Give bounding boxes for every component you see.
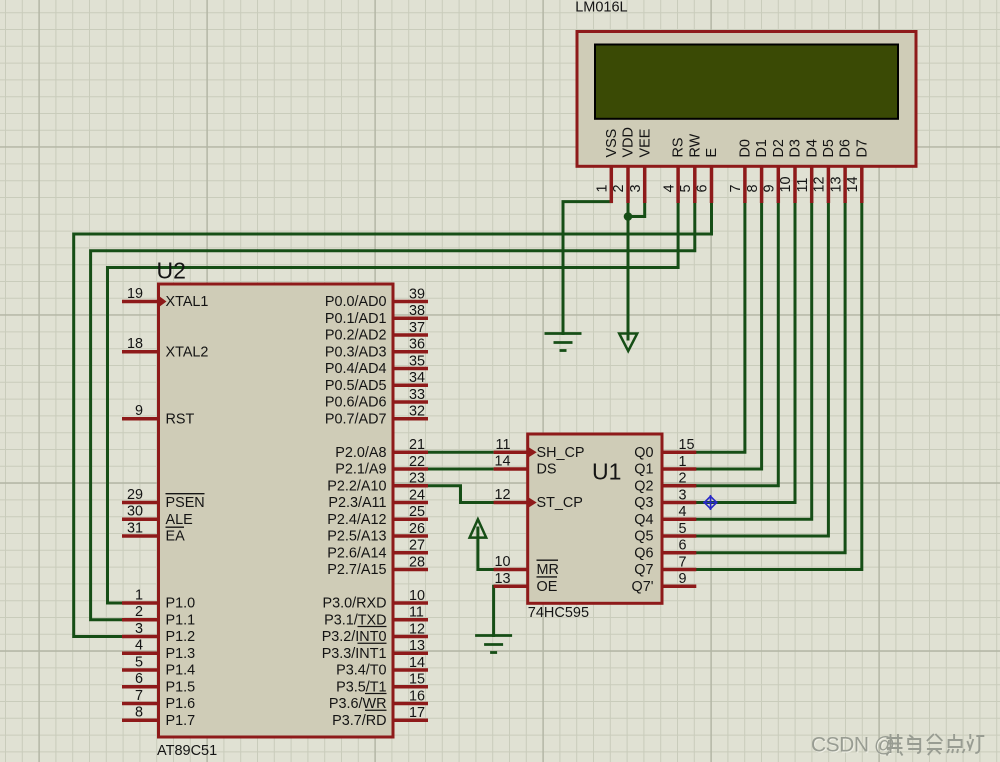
svg-text:12: 12 — [409, 621, 425, 637]
svg-text:P2.4/A12: P2.4/A12 — [327, 512, 386, 528]
U2 pin 5 (P1.4) — [122, 654, 195, 678]
svg-text:ST_CP: ST_CP — [537, 495, 583, 511]
svg-text:12: 12 — [812, 176, 828, 192]
label LM016L — [575, 0, 627, 16]
LCD pin 2 (VDD) stub — [611, 127, 636, 203]
ground terminal arrow (below VDD/VEE) — [619, 334, 637, 352]
LCD pin 7 (D0) stub — [728, 139, 753, 203]
wire OE to ground — [492, 586, 495, 635]
svg-text:P1.6: P1.6 — [166, 696, 196, 712]
shift register U1 74HC595 body — [528, 434, 662, 603]
svg-text:RW: RW — [687, 133, 703, 157]
U1 pin 11 (SH_CP) — [494, 437, 585, 461]
U2 pin 17 (P3.7/RD) — [332, 705, 428, 729]
svg-text:DS: DS — [537, 462, 557, 478]
wire VDD (LCD pin 2) down to terminal — [627, 203, 630, 339]
svg-text:74HC595: 74HC595 — [528, 605, 589, 621]
svg-text:D3: D3 — [788, 139, 804, 157]
svg-text:3: 3 — [135, 621, 143, 637]
U2 pin 37 (P0.2/AD2) — [325, 320, 428, 344]
LCD pin 13 (D6) stub — [828, 139, 853, 203]
svg-text:14: 14 — [409, 655, 425, 671]
U2 pin 39 (P0.0/AD0) — [325, 286, 428, 310]
ground (U1 OE) — [475, 636, 512, 653]
svg-text:P1.5: P1.5 — [166, 679, 196, 695]
svg-text:P0.2/AD2: P0.2/AD2 — [325, 328, 387, 344]
svg-text:VSS: VSS — [604, 129, 620, 158]
U2 pin 8 (P1.7) — [122, 705, 195, 729]
svg-text:RS: RS — [671, 138, 687, 158]
svg-text:6: 6 — [135, 671, 143, 687]
wire VSS (LCD pin 1) to ground — [563, 202, 611, 334]
wire D1 : LCD pin 8 to U1 Q1 — [696, 203, 761, 469]
svg-text:D7: D7 — [854, 139, 870, 157]
U2 pin 24 (P2.3/A11) — [328, 487, 428, 511]
svg-text:27: 27 — [409, 538, 425, 554]
svg-text:14: 14 — [845, 176, 861, 192]
svg-text:ALE: ALE — [166, 512, 193, 528]
svg-text:5: 5 — [678, 184, 694, 192]
svg-text:37: 37 — [409, 320, 425, 336]
wire P2.2/A10 to ST_CP — [428, 486, 494, 503]
svg-text:38: 38 — [409, 303, 425, 319]
svg-text:2: 2 — [135, 604, 143, 620]
LCD pin 3 (VEE) stub — [628, 129, 653, 203]
svg-text:7: 7 — [728, 184, 744, 192]
LCD display LM016L body — [577, 32, 916, 167]
svg-text:6: 6 — [679, 538, 687, 554]
U1 pin 9 (Q7') — [632, 571, 697, 595]
svg-text:6: 6 — [695, 184, 711, 192]
svg-text:P0.4/AD4: P0.4/AD4 — [325, 361, 387, 377]
U1 pin 4 (Q4) — [634, 504, 696, 528]
junction VDD/VEE — [624, 212, 633, 221]
LCD pin 6 (E) stub — [695, 148, 720, 203]
ground (LCD VSS) — [545, 334, 582, 351]
wire MR to +5V power — [478, 528, 494, 570]
LCD pin 8 (D1) stub — [745, 139, 770, 203]
svg-text:D2: D2 — [771, 139, 787, 157]
svg-text:26: 26 — [409, 521, 425, 537]
U2 pin 2 (P1.1) — [122, 604, 195, 628]
svg-text:17: 17 — [409, 705, 425, 721]
svg-text:P1.2: P1.2 — [166, 629, 196, 645]
svg-text:18: 18 — [127, 336, 143, 352]
svg-text:MR: MR — [537, 562, 559, 578]
U2 pin 6 (P1.5) — [122, 671, 195, 695]
svg-text:P1.3: P1.3 — [166, 646, 196, 662]
U2 pin 14 (P3.4/T0) — [336, 655, 428, 679]
U2 pin 1 (P1.0) — [122, 587, 195, 611]
U2 pin 26 (P2.5/A13) — [327, 521, 428, 545]
svg-text:Q4: Q4 — [634, 512, 653, 528]
wire D6 : LCD pin 13 to U1 Q6 — [696, 203, 845, 553]
svg-text:34: 34 — [409, 370, 425, 386]
U2 pin 18 (XTAL2) — [122, 336, 208, 360]
U2 pin 12 (P3.2/INT0) — [322, 621, 428, 645]
U1 pin 1 (Q1) — [634, 454, 696, 478]
wire D5 : LCD pin 12 to U1 Q5 — [696, 203, 828, 536]
svg-text:E: E — [704, 148, 720, 158]
svg-text:10: 10 — [778, 176, 794, 192]
U1 pin 10 (MR) — [494, 554, 559, 578]
svg-text:11: 11 — [496, 437, 511, 453]
wire P2.0/A8 to SH_CP — [428, 451, 494, 454]
svg-text:5: 5 — [135, 654, 143, 670]
U2 pin 33 (P0.6/AD6) — [325, 387, 428, 411]
svg-text:21: 21 — [409, 437, 425, 453]
svg-text:12: 12 — [494, 487, 510, 503]
svg-text:P2.0/A8: P2.0/A8 — [335, 445, 386, 461]
svg-text:Q7: Q7 — [634, 562, 653, 578]
svg-text:36: 36 — [409, 337, 425, 353]
svg-text:P2.5/A13: P2.5/A13 — [327, 529, 386, 545]
svg-text:VDD: VDD — [621, 127, 637, 157]
svg-text:AT89C51: AT89C51 — [157, 743, 217, 759]
U2 pin 36 (P0.3/AD3) — [325, 337, 428, 361]
svg-text:PSEN: PSEN — [166, 495, 205, 511]
svg-text:P0.0/AD0: P0.0/AD0 — [325, 294, 387, 310]
U2 pin 32 (P0.7/AD7) — [325, 404, 428, 428]
U2 pin 4 (P1.3) — [122, 638, 195, 662]
svg-text:P2.3/A11: P2.3/A11 — [328, 495, 386, 511]
LCD pin 11 (D4) stub — [795, 139, 820, 203]
value label 74HC595 — [528, 605, 589, 621]
U2 pin 25 (P2.4/A12) — [327, 504, 428, 528]
svg-text:3: 3 — [628, 184, 644, 192]
svg-text:5: 5 — [679, 521, 687, 537]
svg-text:1: 1 — [679, 454, 687, 470]
U2 pin 38 (P0.1/AD1) — [325, 303, 428, 327]
svg-text:8: 8 — [745, 184, 761, 192]
U1 pin 12 (ST_CP) — [494, 487, 583, 511]
svg-text:LM016L: LM016L — [575, 0, 627, 16]
svg-text:P1.7: P1.7 — [166, 713, 196, 729]
U1 pin 2 (Q2) — [634, 471, 696, 495]
U2 pin 15 (P3.5/T1) — [336, 672, 428, 696]
svg-text:7: 7 — [135, 688, 143, 704]
U1 pin 14 (DS) — [494, 454, 557, 478]
svg-text:P0.1/AD1: P0.1/AD1 — [325, 311, 387, 327]
svg-text:32: 32 — [409, 404, 425, 420]
svg-text:SH_CP: SH_CP — [537, 445, 585, 461]
U2 pin 11 (P3.1/TXD) — [324, 605, 428, 629]
U2 pin 23 (P2.2/A10) — [327, 471, 428, 495]
svg-text:15: 15 — [409, 672, 425, 688]
svg-text:P0.3/AD3: P0.3/AD3 — [325, 344, 387, 360]
svg-text:13: 13 — [828, 176, 844, 192]
LCD pin 10 (D3) stub — [778, 139, 803, 203]
U1 pin 7 (Q7) — [634, 554, 696, 578]
svg-text:P0.5/AD5: P0.5/AD5 — [325, 378, 387, 394]
svg-text:2: 2 — [679, 471, 687, 487]
svg-text:10: 10 — [409, 588, 425, 604]
svg-text:1: 1 — [135, 587, 143, 603]
svg-text:P2.7/A15: P2.7/A15 — [327, 562, 386, 578]
svg-text:31: 31 — [127, 520, 143, 536]
U2 pin 10 (P3.0/RXD) — [323, 588, 429, 612]
svg-text:13: 13 — [494, 571, 510, 587]
svg-text:D5: D5 — [821, 139, 837, 157]
svg-text:D4: D4 — [804, 139, 820, 157]
svg-text:Q2: Q2 — [634, 478, 653, 494]
svg-text:EA: EA — [166, 529, 186, 545]
reference label U1 — [592, 459, 621, 485]
U2 pin 7 (P1.6) — [122, 688, 195, 712]
svg-text:P1.0: P1.0 — [166, 596, 196, 612]
svg-text:XTAL1: XTAL1 — [166, 294, 209, 310]
svg-text:Q5: Q5 — [634, 529, 653, 545]
svg-text:P3.4/T0: P3.4/T0 — [336, 663, 386, 679]
svg-text:Q7': Q7' — [632, 579, 654, 595]
U1 pin 6 (Q6) — [634, 538, 696, 562]
U2 pin 28 (P2.7/A15) — [327, 554, 428, 578]
U2 pin 13 (P3.3/INT1) — [322, 638, 428, 662]
svg-text:9: 9 — [135, 403, 143, 419]
LCD pin 9 (D2) stub — [762, 139, 787, 203]
svg-text:P2.6/A14: P2.6/A14 — [327, 545, 386, 561]
U1 pin 13 (OE) — [494, 571, 558, 595]
svg-text:D1: D1 — [754, 139, 770, 157]
svg-text:Q0: Q0 — [634, 445, 653, 461]
U2 pin 3 (P1.2) — [122, 621, 195, 645]
wire E : LCD pin 6 to U2 P1.2 — [74, 203, 712, 637]
power terminal arrow (+5V at U1 MR) — [470, 519, 487, 537]
wire D3 : LCD pin 10 to U1 Q3 — [696, 203, 795, 503]
U2 pin 35 (P0.4/AD4) — [325, 353, 428, 377]
svg-text:15: 15 — [679, 437, 695, 453]
svg-text:P3.3/INT1: P3.3/INT1 — [322, 646, 387, 662]
U2 pin 22 (P2.1/A9) — [335, 454, 428, 478]
U1 pin 5 (Q5) — [634, 521, 696, 545]
svg-text:D6: D6 — [838, 139, 854, 157]
svg-text:24: 24 — [409, 487, 425, 503]
wire RW : LCD pin 5 to U2 P1.1 — [91, 203, 695, 620]
U2 pin 19 (XTAL1) — [122, 286, 208, 310]
svg-text:29: 29 — [127, 487, 143, 503]
svg-text:P3.0/RXD: P3.0/RXD — [323, 596, 387, 612]
svg-text:U1: U1 — [592, 459, 621, 485]
svg-text:VEE: VEE — [637, 129, 653, 158]
svg-text:P0.6/AD6: P0.6/AD6 — [325, 395, 387, 411]
svg-text:P1.1: P1.1 — [166, 612, 196, 628]
watermark CSDN — [811, 733, 984, 757]
svg-text:33: 33 — [409, 387, 425, 403]
svg-text:OE: OE — [537, 579, 558, 595]
svg-text:35: 35 — [409, 353, 425, 369]
U2 pin 29 (PSEN) — [122, 487, 205, 511]
svg-text:25: 25 — [409, 504, 425, 520]
wire RS : LCD pin 4 to U2 P1.0 — [108, 203, 679, 603]
svg-text:D0: D0 — [738, 139, 754, 157]
svg-text:30: 30 — [127, 504, 143, 520]
svg-text:9: 9 — [679, 571, 687, 587]
svg-text:4: 4 — [661, 184, 677, 192]
reference label U2 — [157, 258, 186, 284]
U2 pin 30 (ALE) — [122, 504, 193, 528]
wire D4 : LCD pin 11 to U1 Q4 — [696, 203, 811, 519]
svg-text:9: 9 — [762, 184, 778, 192]
svg-text:4: 4 — [135, 638, 143, 654]
svg-text:P2.1/A9: P2.1/A9 — [335, 462, 386, 478]
U1 pin 15 (Q0) — [634, 437, 696, 461]
svg-text:RST: RST — [166, 411, 195, 427]
wire D2 : LCD pin 9 to U1 Q2 — [696, 203, 778, 486]
svg-text:P0.7/AD7: P0.7/AD7 — [325, 411, 387, 427]
svg-text:2: 2 — [611, 184, 627, 192]
wire VEE (LCD pin 3) to VDD junction — [628, 203, 645, 217]
svg-text:11: 11 — [409, 605, 424, 621]
svg-text:28: 28 — [409, 554, 425, 570]
LCD pin 4 (RS) stub — [661, 138, 686, 204]
svg-text:8: 8 — [135, 705, 143, 721]
wire P2.1/A9 to DS — [428, 468, 494, 471]
LCD pin 14 (D7) stub — [845, 139, 870, 203]
svg-text:XTAL2: XTAL2 — [166, 344, 209, 360]
wire D7 : LCD pin 14 to U1 Q7 — [696, 203, 862, 570]
svg-text:11: 11 — [795, 178, 811, 193]
U2 pin 31 (EA) — [122, 520, 185, 544]
svg-text:13: 13 — [409, 638, 425, 654]
wire D0 : LCD pin 7 to U1 Q0 — [696, 203, 745, 452]
svg-text:P1.4: P1.4 — [166, 663, 196, 679]
svg-text:CSDN @: CSDN @ — [811, 733, 895, 756]
svg-text:Q6: Q6 — [634, 545, 653, 561]
svg-text:10: 10 — [494, 554, 510, 570]
svg-text:P3.7/RD: P3.7/RD — [332, 713, 386, 729]
U2 pin 16 (P3.6/WR) — [329, 688, 428, 712]
svg-text:1: 1 — [595, 184, 611, 192]
LCD pin 1 (VSS) stub — [595, 129, 620, 203]
svg-text:U2: U2 — [157, 258, 186, 284]
svg-text:16: 16 — [409, 688, 425, 704]
U2 pin 34 (P0.5/AD5) — [325, 370, 428, 394]
svg-text:3: 3 — [679, 487, 687, 503]
U2 pin 9 (RST) — [122, 403, 194, 427]
svg-text:14: 14 — [494, 454, 510, 470]
svg-text:7: 7 — [679, 554, 687, 570]
svg-text:23: 23 — [409, 471, 425, 487]
svg-text:4: 4 — [679, 504, 687, 520]
LCD pin 5 (RW) stub — [678, 133, 703, 203]
U1 pin 3 (Q3) — [634, 487, 696, 511]
U2 pin 27 (P2.6/A14) — [327, 538, 428, 562]
svg-text:19: 19 — [127, 286, 143, 302]
svg-text:P2.2/A10: P2.2/A10 — [327, 478, 386, 494]
svg-text:22: 22 — [409, 454, 425, 470]
svg-text:39: 39 — [409, 286, 425, 302]
U2 pin 21 (P2.0/A8) — [335, 437, 428, 461]
svg-text:Q3: Q3 — [634, 495, 653, 511]
microcontroller U2 AT89C51 body — [159, 284, 394, 737]
svg-text:Q1: Q1 — [634, 462, 653, 478]
value label AT89C51 — [157, 743, 217, 759]
LCD pin 12 (D5) stub — [812, 139, 837, 203]
origin marker (blue crosshair) — [703, 495, 718, 510]
